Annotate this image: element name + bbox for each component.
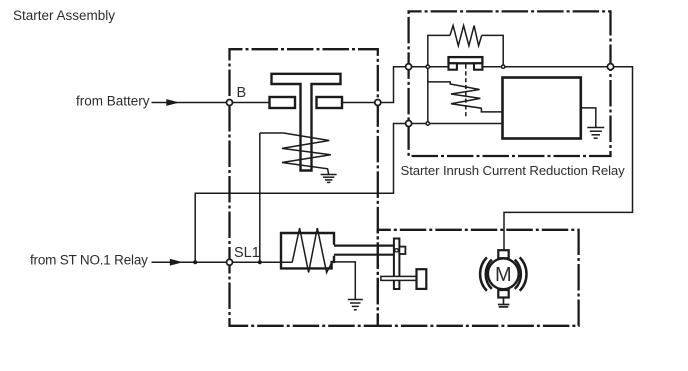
brush arc left inner	[486, 260, 492, 289]
mechanical link (dashed line contact to coil)	[465, 65, 467, 118]
svg-text:SL1: SL1	[234, 245, 260, 261]
drive lever vertical bar	[394, 239, 400, 290]
node B (terminal circle)	[227, 100, 233, 106]
relay riser (left branch)	[427, 67, 429, 124]
relay enclosure (dash-dot box)	[409, 11, 611, 156]
motor top terminal	[498, 250, 508, 258]
motor bottom terminal	[498, 290, 508, 298]
junction dot right of SL1	[258, 260, 262, 264]
relay main wire left segment	[409, 66, 449, 68]
plunger rod (lower line)	[334, 254, 394, 256]
svg-text:B: B	[237, 85, 247, 101]
lever pivot	[395, 249, 398, 252]
starter assembly enclosure (dash-dot box)	[230, 49, 378, 326]
lever tab	[399, 247, 405, 254]
moving contact bar	[381, 276, 417, 280]
resistor R (zigzag)	[450, 26, 482, 46]
node relay top-right	[607, 64, 613, 70]
junction dot left of SL1	[193, 260, 197, 264]
fixed contact right	[317, 97, 343, 108]
svg-text:from ST NO.1 Relay: from ST NO.1 Relay	[30, 253, 148, 268]
relay contact bridge bar	[449, 57, 483, 63]
relay contact right leg	[474, 63, 482, 69]
wire from SL1 branch to relay lower node	[195, 124, 408, 263]
SL1 coil case (open right side for rod)	[281, 233, 334, 268]
wire relay output to motor	[504, 67, 633, 251]
ground (control module)	[587, 128, 604, 139]
wire SL1 riser to coil top	[259, 133, 261, 262]
wire SL1 coil to ground	[334, 262, 355, 299]
wire SL1 node to SL1 coil	[230, 261, 293, 263]
control module box U1	[503, 78, 581, 139]
SL1 coil winding	[292, 228, 332, 273]
wire right fixed contact to box edge node	[342, 102, 378, 104]
brush arc right outer	[520, 257, 527, 290]
wire control module to ground	[581, 108, 596, 127]
plunger rod (upper line)	[334, 245, 394, 247]
svg-text:M: M	[495, 264, 512, 286]
resistor bypass loop wires	[428, 35, 450, 66]
fixed contact left	[270, 97, 296, 108]
motor ground stem	[503, 298, 505, 305]
svg-text:Starter Inrush Current Reducti: Starter Inrush Current Reduction Relay	[401, 163, 626, 178]
small node right of contact	[502, 65, 505, 68]
magnetic switch plunger (T shape)	[272, 74, 341, 171]
ground (pull-in coil)	[321, 175, 337, 183]
ground (SL1 coil)	[348, 300, 363, 310]
node SL1 (terminal circle)	[227, 259, 233, 265]
relay coil winding	[428, 82, 503, 112]
pull-in coil (starter solenoid winding)	[260, 133, 331, 174]
small node left of contact	[426, 65, 429, 68]
relay main wire right segment	[482, 66, 610, 68]
wire lower node to control module	[409, 123, 503, 125]
input arrow from ST NO.1 Relay	[152, 259, 227, 266]
wire starter edge node to relay node	[378, 67, 409, 103]
ground (motor)	[498, 305, 510, 307]
relay contact left leg	[449, 63, 457, 69]
motor body circle	[488, 258, 519, 289]
contact block	[417, 269, 427, 289]
node relay lower-left	[406, 121, 412, 127]
input arrow from Battery	[152, 99, 227, 106]
node relay top-left	[406, 64, 412, 70]
svg-text:from Battery: from Battery	[76, 94, 150, 109]
brush arc left outer	[480, 257, 487, 290]
node starter box right edge	[375, 100, 381, 106]
brush arc right inner	[515, 260, 521, 289]
small node on lower relay wire	[426, 122, 429, 125]
wire B node to left fixed contact	[230, 102, 270, 104]
starter motor enclosure (dash-dot box)	[378, 230, 579, 326]
svg-text:Starter Assembly: Starter Assembly	[13, 8, 115, 23]
